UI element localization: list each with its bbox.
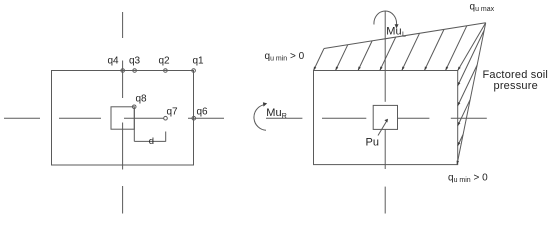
svg-text:q1: q1 xyxy=(193,56,205,67)
svg-text:qu min > 0: qu min > 0 xyxy=(448,173,488,185)
svg-text:q2: q2 xyxy=(159,56,171,67)
svg-text:qu max: qu max xyxy=(470,2,495,14)
svg-text:q7: q7 xyxy=(167,107,179,118)
svg-text:Mu: Mu xyxy=(386,26,401,38)
svg-text:Pu: Pu xyxy=(366,136,379,148)
svg-text:Mu: Mu xyxy=(266,107,281,119)
svg-text:qu min > 0: qu min > 0 xyxy=(265,51,305,63)
svg-text:q3: q3 xyxy=(129,56,141,67)
svg-text:d: d xyxy=(149,136,154,147)
svg-text:q6: q6 xyxy=(197,107,209,118)
svg-text:R: R xyxy=(282,113,287,120)
svg-text:q8: q8 xyxy=(136,94,148,105)
svg-text:q4: q4 xyxy=(108,56,120,67)
svg-text:L: L xyxy=(402,32,406,39)
svg-text:pressure: pressure xyxy=(494,80,538,92)
